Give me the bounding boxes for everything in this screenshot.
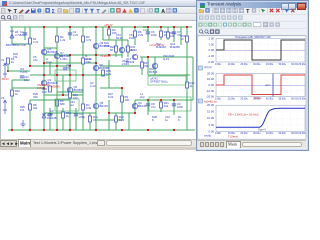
label Q17: [126, 57, 135, 64]
wire: [173, 100, 175, 115]
label R15: [106, 69, 112, 76]
label R33: [42, 87, 47, 94]
wire: [147, 57, 149, 75]
label Ic2: [90, 81, 97, 88]
resistor R8: [29, 104, 32, 110]
node junction: [173, 26, 175, 28]
label R3: [86, 35, 92, 42]
label R13: [66, 111, 71, 118]
capacitor C11: [20, 76, 24, 78]
label Q3: [100, 41, 110, 48]
resistor R1b: [7, 58, 10, 64]
resistor R20: [186, 82, 189, 88]
wire: [108, 100, 110, 130]
wire: [62, 108, 64, 130]
wire: [103, 39, 128, 41]
label C9: [177, 102, 183, 109]
label R28: [152, 115, 157, 122]
capacitor C6: [146, 32, 150, 34]
label 2SC2240: [163, 54, 175, 61]
wire: [82, 92, 84, 130]
resistor R1: [29, 38, 32, 44]
wire: [109, 112, 135, 114]
node junction: [43, 26, 45, 28]
wire: [108, 60, 110, 88]
label Q5: [126, 45, 138, 52]
resistor R34: [69, 92, 72, 98]
node junction: [43, 129, 45, 131]
diode D2: [42, 114, 46, 118]
wire: [141, 57, 143, 75]
wire: [24, 27, 26, 40]
label R9: [125, 95, 130, 102]
label R5: [60, 99, 65, 106]
node junction: [62, 94, 64, 96]
node junction: [82, 74, 84, 76]
label BCM56B5: [48, 85, 61, 89]
resistor R2: [56, 36, 59, 42]
capacitor C9: [172, 104, 176, 106]
label Q9: [138, 101, 147, 108]
wire: [69, 55, 71, 66]
wire: [186, 100, 188, 130]
capacitor C3: [74, 114, 78, 116]
label R19: [181, 34, 186, 41]
label R4: [112, 28, 117, 35]
transistor Q6: [93, 103, 98, 108]
wire: [121, 27, 123, 58]
voltage source V1: [3, 63, 7, 78]
wire: [140, 56, 193, 58]
wire: [56, 27, 58, 48]
node junction: [160, 99, 162, 101]
node junction: [121, 87, 123, 89]
transistor Q4: [67, 87, 72, 92]
wire: [30, 74, 109, 76]
wire: [43, 27, 45, 66]
wire: [121, 88, 123, 120]
wire: [12, 43, 30, 45]
resistor R33: [49, 86, 52, 92]
node junction: [108, 54, 110, 56]
transistor Q7: [132, 103, 137, 108]
label R34: [73, 93, 78, 100]
wire: [95, 113, 97, 130]
label RL: [178, 115, 182, 122]
label Zd: [15, 30, 21, 37]
label Q7: [60, 51, 70, 58]
node junction: [108, 112, 110, 114]
node junction: [147, 26, 149, 28]
label R16: [15, 89, 20, 96]
wire: [154, 57, 156, 75]
wire: [180, 27, 182, 45]
node junction: [173, 129, 175, 131]
wire: [44, 62, 96, 64]
resistor R21: [127, 46, 130, 52]
label R23: [13, 52, 18, 59]
wire: [95, 27, 97, 60]
selection box around R5 group: [55, 99, 79, 111]
resistor R18: [167, 32, 170, 38]
wire: [186, 50, 188, 75]
label R31: [86, 57, 91, 64]
transistor Q7b: [54, 53, 59, 58]
node junction: [29, 129, 31, 131]
node junction: [134, 26, 136, 28]
voltage source V2: [3, 100, 7, 114]
label R22: [110, 45, 115, 52]
wire: [82, 27, 84, 50]
wire: [43, 88, 45, 130]
node junction: [95, 62, 97, 64]
wire: [147, 27, 149, 42]
label VF1: [70, 100, 75, 107]
label Q12: [170, 42, 180, 49]
resistor R12: [115, 116, 118, 122]
node junction: [29, 65, 31, 67]
wire: [44, 47, 57, 49]
resistor R19: [186, 36, 189, 42]
transistor Q10: [152, 63, 157, 68]
label +95.4V: [104, 23, 113, 27]
label R2: [60, 35, 66, 42]
node junction: [160, 26, 162, 28]
wire: [100, 87, 122, 89]
label Q10: [149, 67, 158, 74]
wire: [43, 66, 45, 88]
node junction: [56, 129, 58, 131]
label C10: [165, 115, 170, 122]
node junction: [95, 26, 97, 28]
op-amp U1 uA741 box: [148, 76, 186, 85]
label C7: [177, 30, 182, 37]
label C3: [79, 112, 85, 119]
node junction: [95, 54, 97, 56]
label C8: [151, 102, 156, 109]
resistor R10: [160, 31, 163, 37]
node junction: [43, 62, 45, 64]
label Q11: [156, 42, 166, 49]
node junction: [121, 129, 123, 131]
node junction: [173, 99, 175, 101]
node junction: [95, 129, 97, 131]
wire: [44, 94, 83, 96]
schematic canvas: [0, 21, 197, 139]
wire: [7, 64, 9, 71]
wire: [56, 48, 58, 66]
resistor R16: [11, 90, 14, 96]
wire: [69, 66, 71, 100]
node junction: [186, 26, 188, 28]
wire: [44, 112, 96, 114]
label R26: [20, 105, 25, 112]
label R21: [131, 45, 136, 52]
label Vq: [60, 54, 68, 61]
zener diode D1 BZX85: [10, 31, 14, 38]
label R25: [33, 92, 38, 99]
transistor Q2: [41, 80, 46, 85]
resistor R17: [141, 62, 144, 68]
resistor R11: [160, 102, 163, 108]
label R17: [144, 61, 149, 68]
ground: [21, 120, 26, 127]
label R20: [190, 81, 195, 88]
wire: [57, 91, 83, 93]
wire: [62, 75, 64, 95]
wire: [69, 27, 71, 40]
wire: [135, 99, 193, 101]
wire: [134, 100, 136, 113]
label R1: [11, 57, 15, 64]
label R1: [33, 37, 39, 44]
status strip: [0, 147, 307, 150]
resistor R6: [134, 31, 137, 37]
node junction: [56, 74, 58, 76]
wire: [49, 108, 51, 130]
node junction: [69, 54, 71, 56]
node junction: [69, 65, 71, 67]
wire: [108, 27, 110, 40]
main toolbar row 1: [0, 7, 307, 14]
capacitor C12: [63, 68, 67, 70]
label C11: [24, 75, 29, 82]
resistor R22: [115, 46, 118, 52]
wire: [12, 87, 44, 89]
label C4: [20, 30, 25, 37]
wire: [75, 108, 77, 130]
resistor R15: [102, 70, 105, 76]
label L1: [140, 92, 145, 99]
wire: [160, 27, 162, 40]
node junction: [147, 129, 149, 131]
label VT3: [129, 33, 135, 40]
label IC1: [20, 67, 28, 74]
resistor R13: [62, 112, 65, 118]
capacitor C8: [146, 104, 150, 106]
wire: [56, 113, 58, 130]
label R18: [170, 31, 175, 38]
label C6: [143, 25, 149, 32]
wire: [89, 113, 91, 130]
wire: [69, 100, 71, 130]
wire: [11, 80, 13, 130]
node junction: [134, 112, 136, 114]
wire: [30, 99, 70, 101]
label V1: [1, 58, 5, 62]
label C2: [50, 109, 54, 116]
resistor R5: [56, 100, 59, 106]
wire: [95, 60, 97, 113]
selection box around output network: [149, 97, 191, 111]
label R11: [164, 101, 169, 108]
net -V rail wire: [8, 129, 195, 131]
label VT2: [116, 33, 123, 40]
wire: [167, 27, 169, 40]
resistor R14: [89, 116, 92, 122]
resistor R4: [108, 29, 111, 35]
label C12: [66, 63, 71, 70]
node junction: [69, 26, 71, 28]
label Q8: [100, 101, 109, 108]
node junction: [7, 70, 9, 72]
wire: [29, 100, 31, 130]
label Vbias: [122, 59, 129, 66]
wire: [134, 27, 136, 45]
resistor R3: [82, 36, 85, 42]
label -95.4V: [1, 77, 9, 81]
main toolbar row 2: [0, 14, 307, 21]
label uA741: [150, 77, 169, 84]
wire: [173, 27, 175, 42]
label BZX85B4V7-LIR: [6, 43, 26, 47]
node junction: [69, 129, 71, 131]
node junction: [11, 129, 13, 131]
label R24: [104, 41, 110, 48]
wire: [8, 70, 30, 72]
label R6: [138, 30, 144, 37]
main tab bar: [0, 139, 197, 147]
wire: [11, 27, 13, 44]
transistor Q17: [132, 54, 137, 59]
wire: [160, 100, 162, 112]
resistor R9: [121, 96, 124, 102]
transistor Q8b: [93, 65, 98, 70]
label Q4: [48, 47, 58, 54]
wire: [115, 40, 117, 57]
capacitor C7: [172, 32, 176, 34]
capacitor C1: [68, 33, 72, 35]
node junction: [108, 26, 110, 28]
wire: [82, 50, 84, 92]
capacitor C2: [48, 114, 52, 116]
label C1: [73, 30, 79, 37]
label Q8: [99, 63, 109, 70]
wire: [102, 27, 104, 40]
label R10: [164, 30, 169, 37]
label &#215;1 95.4V: [100, 54, 111, 58]
wire: [30, 65, 70, 67]
label R8: [33, 103, 38, 110]
wire: [49, 63, 51, 75]
main window title bar: [0, 0, 307, 7]
node junction: [56, 65, 58, 67]
label C5: [33, 55, 38, 62]
wire: [29, 27, 31, 66]
node junction: [147, 99, 149, 101]
label Vbe1 1 R5: [37, 83, 50, 90]
wire: [127, 40, 129, 57]
wire: [96, 119, 122, 121]
label Ib: [85, 54, 92, 61]
label R12: [119, 115, 125, 122]
node junction: [43, 74, 45, 76]
label C6: [151, 30, 157, 37]
transistor Q1: [41, 49, 46, 54]
transistor Q5: [119, 47, 124, 52]
resistor R7: [82, 104, 85, 110]
resistor R31: [82, 58, 85, 64]
label R14: [93, 115, 98, 122]
capacitor C4: [23, 33, 27, 35]
wire: [148, 74, 190, 76]
label V2: [1, 96, 5, 100]
label +Vcc1 95.4V: [149, 43, 165, 47]
label R27: [108, 92, 114, 99]
wire: [100, 65, 140, 67]
wire: [128, 113, 130, 130]
label R7: [86, 103, 92, 110]
wire: [56, 92, 58, 113]
label D2: [47, 113, 57, 120]
transistor Q3: [93, 43, 98, 48]
node junction: [147, 56, 149, 58]
label Q6: [74, 85, 84, 92]
wire: [56, 66, 58, 92]
wire: [192, 57, 194, 100]
wire: [44, 54, 122, 56]
label Ic: [46, 57, 53, 64]
node junction: [43, 87, 45, 89]
label Q2: [48, 78, 58, 85]
node junction: [69, 74, 71, 76]
net +V rail wire: [10, 26, 192, 28]
selection box around Q2 pair: [55, 70, 76, 81]
wire: [115, 113, 117, 130]
wire: [12, 79, 30, 81]
wire: [186, 27, 188, 50]
wire: [186, 75, 188, 100]
wire: [147, 100, 149, 115]
